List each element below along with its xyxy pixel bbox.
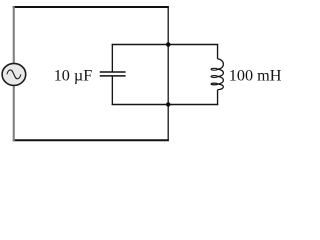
wire: inductor branch lower lead [217,90,219,105]
svg-text:10 µF: 10 µF [54,67,93,85]
ac source: sine wave symbol [7,70,21,79]
inductor L (100 mH): lower return loop [211,83,218,85]
capacitor C (10 uF): bottom plate [100,75,126,77]
wire: left vertical below ac source [13,86,15,141]
capacitor C (10 uF): top plate [100,71,126,73]
wire: top horizontal rail [13,6,169,8]
svg-text:100 mH: 100 mH [229,67,282,85]
ac source: circle body [2,63,26,85]
node: bottom junction dot [166,102,171,107]
inductor L (100 mH): coil right arcs [218,59,224,90]
inductor L (100 mH): upper return loop [211,68,218,70]
wire: right outer vertical through both junctions [167,6,169,141]
wire: inductor branch upper lead [217,44,219,59]
wire: capacitor branch lower stub [111,76,113,105]
node: top junction dot [166,42,171,47]
wire: bottom horizontal rail [13,139,169,141]
wire: capacitor branch upper stub [111,44,113,72]
wire: inner parallel-section top horizontal [112,44,219,46]
inductor L (100 mH): middle return loop [211,76,218,78]
wire: left vertical above ac source [13,6,15,63]
wire: inner parallel-section bottom horizontal [112,104,219,106]
